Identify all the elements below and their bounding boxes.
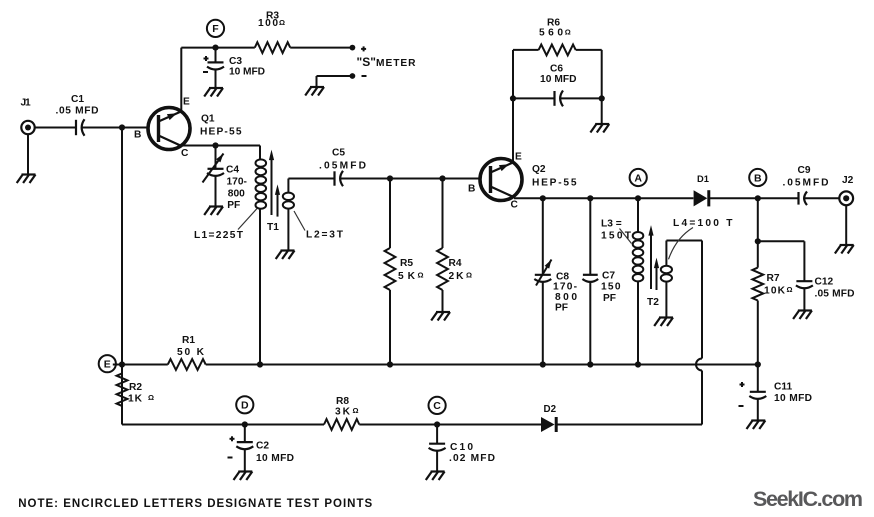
svg-text:800: 800: [555, 292, 577, 303]
svg-text:.05MFD: .05MFD: [783, 178, 829, 189]
svg-text:Ω: Ω: [352, 406, 358, 415]
svg-text:10K: 10K: [764, 286, 786, 297]
svg-text:170-: 170-: [227, 177, 247, 188]
svg-text:.02 MFD: .02 MFD: [449, 453, 495, 464]
svg-text:B: B: [754, 172, 762, 184]
svg-text:3K: 3K: [335, 407, 351, 418]
svg-text:.05MFD: .05MFD: [319, 161, 366, 172]
svg-text:L1=225T: L1=225T: [194, 230, 244, 241]
svg-text:T1: T1: [267, 222, 279, 233]
svg-text:METER: METER: [376, 58, 416, 69]
svg-text:R5: R5: [400, 258, 413, 269]
svg-text:PF: PF: [227, 200, 240, 211]
svg-text:C: C: [181, 148, 189, 159]
svg-text:100: 100: [258, 18, 278, 29]
svg-text:NOTE: ENCIRCLED LETTERS DESIGN: NOTE: ENCIRCLED LETTERS DESIGNATE TEST P…: [18, 498, 372, 510]
svg-text:J2: J2: [842, 175, 854, 186]
svg-text:L3 =: L3 =: [601, 219, 622, 230]
svg-text:D2: D2: [544, 404, 557, 415]
svg-text:C10: C10: [450, 442, 473, 453]
svg-text:C6: C6: [550, 64, 563, 75]
svg-text:C11: C11: [774, 382, 792, 393]
svg-text:HEP-55: HEP-55: [200, 127, 242, 138]
svg-text:F: F: [212, 23, 219, 35]
svg-text:Q1: Q1: [201, 113, 215, 124]
svg-text:HEP-55: HEP-55: [532, 178, 577, 189]
svg-text:C3: C3: [229, 56, 242, 67]
svg-text:D1: D1: [697, 174, 709, 184]
svg-text:E: E: [104, 359, 111, 371]
svg-text:B: B: [468, 184, 475, 195]
svg-text:E: E: [183, 96, 190, 107]
svg-text:C7: C7: [602, 271, 615, 282]
svg-text:B: B: [134, 130, 141, 141]
svg-text:C: C: [511, 200, 519, 211]
svg-text:PF: PF: [603, 293, 616, 304]
svg-text:D: D: [241, 400, 249, 412]
svg-text:10 MFD: 10 MFD: [256, 453, 294, 464]
svg-text:1K: 1K: [128, 394, 143, 405]
svg-text:.05 MFD: .05 MFD: [56, 105, 99, 116]
svg-text:5K: 5K: [398, 271, 416, 282]
svg-text:L2=3T: L2=3T: [306, 230, 344, 241]
svg-text:T2: T2: [647, 297, 659, 308]
svg-text:Ω: Ω: [466, 271, 472, 280]
svg-text:C5: C5: [332, 148, 345, 159]
svg-text:R8: R8: [336, 396, 349, 407]
svg-text:10 MFD: 10 MFD: [774, 393, 812, 404]
svg-text:C2: C2: [256, 441, 269, 452]
svg-text:R7: R7: [767, 273, 780, 284]
svg-text:150: 150: [601, 282, 621, 293]
svg-text:J1: J1: [21, 98, 32, 109]
svg-text:170-: 170-: [553, 282, 577, 293]
svg-text:C4: C4: [226, 165, 239, 176]
svg-text:Ω: Ω: [417, 271, 423, 280]
svg-text:2K: 2K: [449, 271, 465, 282]
svg-text:.05 MFD: .05 MFD: [815, 289, 855, 300]
svg-text:10 MFD: 10 MFD: [540, 74, 577, 85]
svg-text:Ω: Ω: [565, 28, 571, 37]
svg-text:Ω: Ω: [148, 393, 154, 402]
svg-text:A: A: [634, 172, 642, 184]
svg-text:800: 800: [228, 188, 245, 199]
svg-text:Ω: Ω: [279, 18, 285, 27]
svg-text:C: C: [433, 400, 441, 412]
svg-text:R1: R1: [182, 335, 195, 346]
svg-text:Ω: Ω: [786, 285, 792, 294]
svg-text:PF: PF: [555, 303, 568, 314]
svg-text:R2: R2: [129, 382, 142, 393]
svg-text:150T: 150T: [601, 231, 632, 242]
svg-text:R4: R4: [449, 258, 462, 269]
svg-text:SeekIC.com: SeekIC.com: [753, 487, 863, 511]
svg-text:Q2: Q2: [532, 164, 546, 175]
svg-text:C12: C12: [815, 277, 834, 288]
svg-text:C9: C9: [798, 165, 811, 176]
svg-text:"S": "S": [357, 55, 376, 69]
svg-text:E: E: [515, 152, 522, 163]
svg-text:10 MFD: 10 MFD: [229, 67, 265, 78]
svg-text:C1: C1: [71, 94, 84, 105]
svg-text:560: 560: [539, 28, 563, 39]
